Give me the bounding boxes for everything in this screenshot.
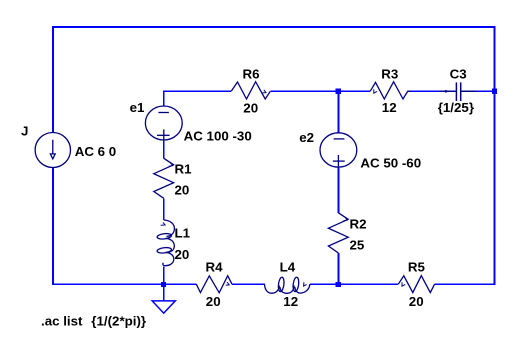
svg-text:20: 20 [206, 294, 221, 309]
svg-text:25: 25 [350, 238, 365, 253]
capacitor C3 [440, 82, 477, 101]
wire: e1 top elbow to R6 [164, 91, 231, 106]
svg-text:.ac list: .ac list [41, 314, 83, 329]
wire: R3 to C3 [408, 90, 456, 92]
svg-text:20: 20 [409, 294, 424, 309]
svg-text:R6: R6 [243, 66, 260, 81]
resistor R5 (horizontal) [398, 276, 434, 293]
label R1 value 20 [175, 183, 190, 198]
svg-text:L1: L1 [175, 226, 191, 241]
label R6 value 20 [243, 101, 258, 116]
label R6 [243, 66, 260, 81]
voltage source e2 [320, 133, 357, 168]
resistor R4 (horizontal) [196, 276, 232, 293]
wire: bottom horizontal R4-L4 [232, 283, 265, 285]
label R3 value 12 [382, 100, 397, 115]
label R4 value 20 [206, 294, 221, 309]
svg-text:12: 12 [283, 294, 298, 309]
inductor L1 (vertical) [157, 220, 175, 266]
svg-text:AC 100 -30: AC 100 -30 [184, 129, 252, 144]
label C3 [450, 66, 467, 81]
svg-text:e2: e2 [299, 130, 314, 145]
label AC 100 -30 [184, 129, 252, 144]
label L4 value 12 [283, 294, 298, 309]
svg-text:20: 20 [243, 101, 258, 116]
svg-text:J: J [21, 124, 28, 139]
wire: R1 to L1 [163, 198, 165, 220]
label R2 value 25 [350, 238, 365, 253]
wire: bottom horizontal L4-R5 [310, 283, 398, 285]
wire: right vertical [494, 26, 496, 285]
svg-text:AC 50 -60: AC 50 -60 [360, 156, 421, 171]
label L1 value 20 [175, 247, 190, 262]
wire: R2 to bottom junction [337, 253, 339, 284]
label R1 [175, 161, 193, 176]
label R2 [350, 216, 367, 231]
label C3 value {1/25} [438, 100, 474, 115]
svg-text:12: 12 [382, 100, 397, 115]
resistor R2 (vertical) [328, 213, 348, 253]
svg-text:R3: R3 [381, 66, 398, 81]
svg-text:20: 20 [175, 183, 190, 198]
spice directive value [91, 314, 146, 329]
svg-text:{1/(2*pi)}: {1/(2*pi)} [91, 314, 146, 329]
wire: junction to ground [163, 284, 165, 301]
label R5 [408, 260, 426, 275]
junction node at C3 right (494.6,91.3) [492, 89, 497, 94]
wire: C3 to right vertical [462, 90, 496, 92]
label L1 [175, 226, 191, 241]
resistor R3 (horizontal) [370, 82, 410, 99]
label R5 value 20 [409, 294, 424, 309]
junction node at R2 bottom (338.4,284.4) [336, 282, 341, 287]
svg-text:R4: R4 [206, 259, 224, 274]
wire: L1 to bottom junction [163, 266, 165, 284]
junction node at ground/bottom (163.5,284.4) [161, 282, 166, 287]
resistor R1 (vertical) [154, 158, 174, 198]
inductor L4 (horizontal) [265, 277, 310, 293]
label R4 [206, 259, 224, 274]
svg-text:C3: C3 [450, 66, 467, 81]
svg-text:e1: e1 [130, 100, 145, 115]
current source J [35, 133, 70, 168]
wire: left vertical below J [52, 168, 54, 285]
wire: e1 bottom to R1 [163, 141, 165, 159]
label J [21, 124, 28, 139]
label e2 [299, 130, 314, 145]
wire: e2 bottom to R2 [337, 168, 339, 213]
wire: bottom horizontal left segment [52, 283, 196, 285]
wire: left vertical above J [52, 26, 54, 132]
junction node at e2 top (338.4,91.3) [336, 89, 341, 94]
wire: top horizontal net [52, 26, 495, 28]
ground symbol [152, 301, 175, 313]
label L4 [280, 259, 296, 274]
svg-text:L4: L4 [280, 259, 296, 274]
spice directive .ac list [41, 314, 83, 329]
svg-text:{1/25}: {1/25} [438, 100, 474, 115]
label R3 [381, 66, 398, 81]
svg-text:R5: R5 [408, 260, 426, 275]
label AC 50 -60 [360, 156, 421, 171]
svg-text:20: 20 [175, 247, 190, 262]
svg-text:AC 6 0: AC 6 0 [75, 144, 116, 159]
label AC 6 0 [75, 144, 116, 159]
svg-text:R2: R2 [350, 216, 367, 231]
voltage source e1 [145, 106, 182, 141]
wire: R6 to e2 junction to R3 [270, 90, 370, 92]
wire: e2 junction down to e2 [337, 91, 339, 132]
label e1 [130, 100, 145, 115]
wire: bottom horizontal R5-right corner [435, 283, 496, 285]
resistor R6 (horizontal) [231, 82, 270, 99]
svg-text:R1: R1 [175, 161, 193, 176]
